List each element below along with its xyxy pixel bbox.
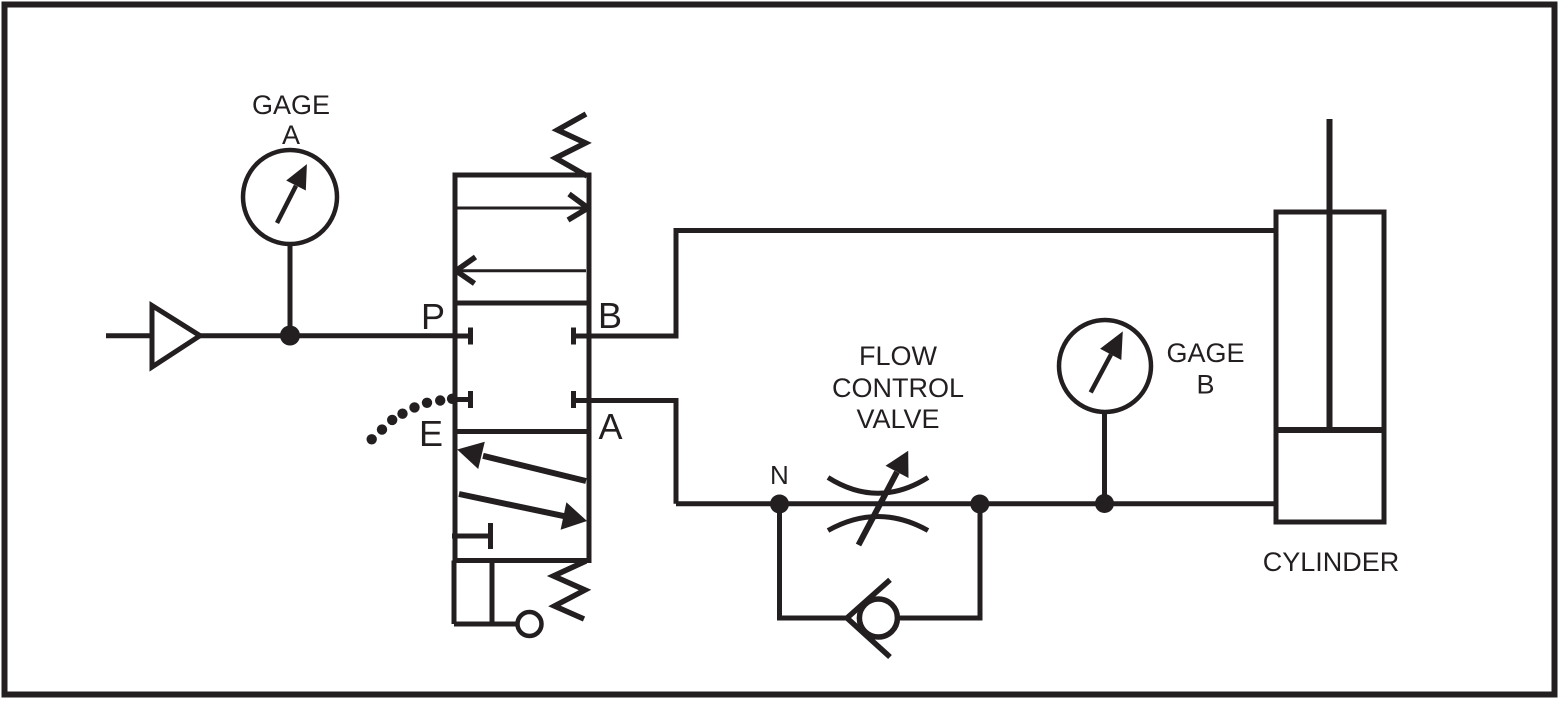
air supply source triangle — [106, 306, 200, 368]
pilot actuator circle — [518, 612, 542, 636]
svg-text:GAGE: GAGE — [1166, 338, 1244, 368]
check valve CV1 — [847, 580, 897, 657]
svg-text:A: A — [282, 120, 300, 150]
cylinder piston — [1276, 427, 1384, 433]
node N — [770, 495, 789, 514]
port A tick — [574, 391, 590, 408]
valve bottom-box exhaust tick — [452, 523, 491, 549]
port B tick — [574, 328, 590, 345]
port P tick — [455, 328, 471, 345]
wire gauge A stem — [288, 244, 293, 336]
valve top-box flow arrow left — [456, 257, 586, 284]
svg-text:FLOW: FLOW — [859, 341, 938, 371]
label GAGE B — [1166, 338, 1244, 400]
pilot actuator box — [454, 561, 516, 625]
valve top-box flow arrow right — [456, 194, 588, 220]
gauge GAGE B — [1059, 320, 1151, 412]
port pilot tick — [452, 391, 471, 408]
wire supply to valve port P — [200, 333, 455, 338]
label FLOW CONTROL VALVE — [832, 341, 964, 434]
wire B to cylinder top — [589, 231, 1276, 337]
node bypass right — [970, 495, 989, 514]
cylinder rod — [1327, 119, 1333, 430]
wire A down to lower line — [589, 401, 676, 504]
svg-text:CONTROL: CONTROL — [832, 373, 964, 403]
svg-text:VALVE: VALVE — [856, 404, 939, 434]
spring top — [556, 114, 588, 176]
wire lower main line — [676, 501, 1276, 506]
gauge GAGE A — [243, 150, 337, 244]
wire bypass left leg — [780, 504, 848, 618]
pilot signal dotted line — [367, 394, 458, 445]
svg-text:CYLINDER: CYLINDER — [1263, 547, 1400, 577]
valve bottom-box arrow up-left — [457, 442, 586, 481]
svg-text:P: P — [421, 296, 445, 337]
svg-text:B: B — [1196, 370, 1214, 400]
svg-text:E: E — [419, 413, 443, 454]
label GAGE A — [252, 90, 330, 150]
svg-text:GAGE: GAGE — [252, 90, 330, 120]
wire bypass right leg — [898, 504, 981, 618]
valve bottom-box arrow down-right — [459, 494, 587, 530]
valve V1 body — [455, 175, 589, 561]
node junction gauge A — [280, 326, 300, 346]
wire gauge B stem — [1102, 412, 1107, 504]
cylinder body — [1276, 212, 1384, 522]
spring bottom — [554, 561, 587, 619]
flow control valve FCV — [828, 451, 928, 545]
svg-text:N: N — [770, 460, 789, 490]
svg-text:A: A — [599, 406, 623, 447]
svg-text:B: B — [598, 295, 622, 336]
node junction gauge B — [1095, 494, 1114, 513]
